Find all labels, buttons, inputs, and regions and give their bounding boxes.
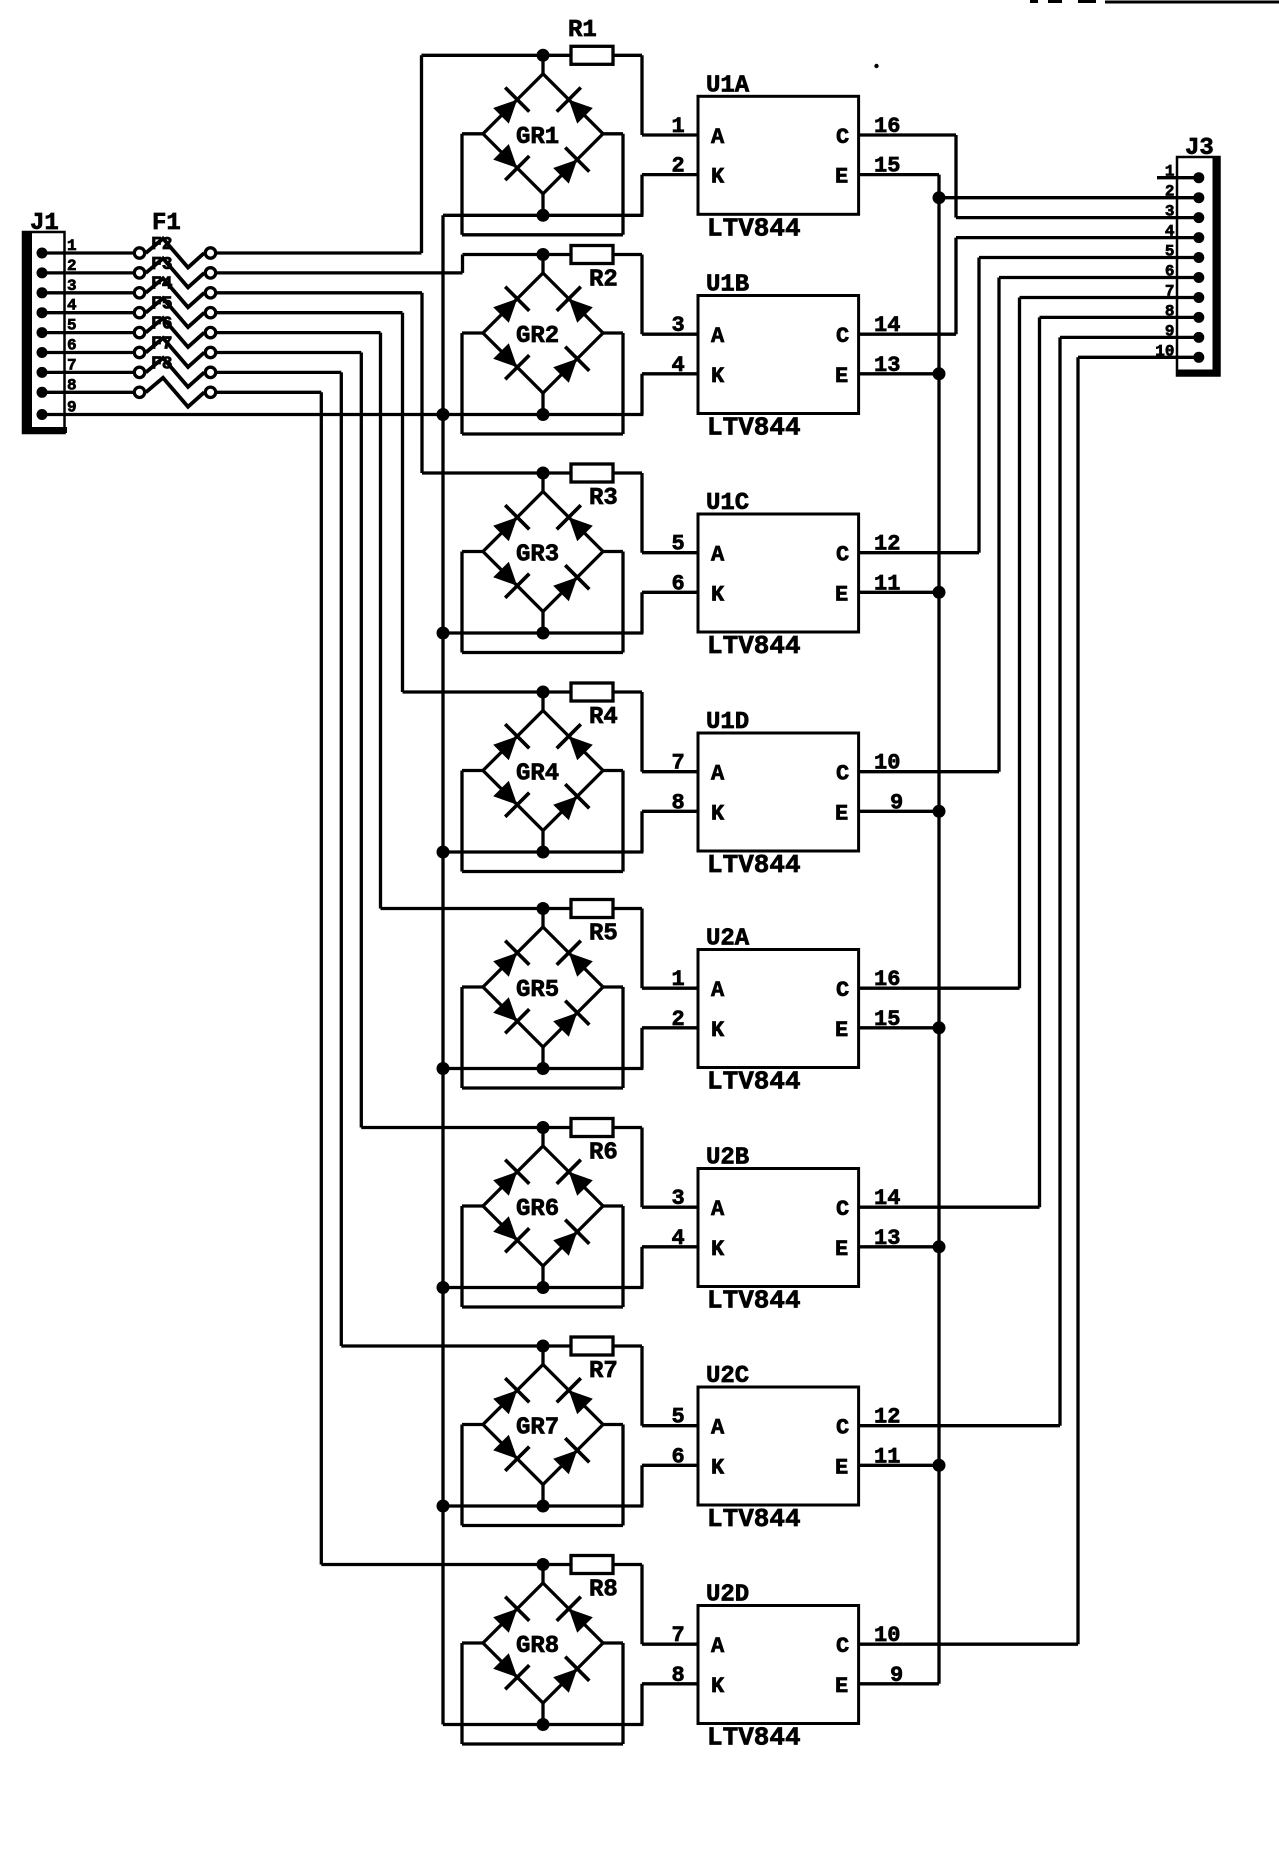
svg-text:3: 3 xyxy=(672,313,685,338)
node GR6 top junction xyxy=(537,1121,550,1134)
connector J1 pin 2 xyxy=(37,267,48,278)
connector J1 pin 1 xyxy=(37,248,48,259)
svg-text:C: C xyxy=(836,324,849,349)
node GR7 top junction xyxy=(537,1340,550,1353)
node emitter bus junction U1B xyxy=(933,367,946,380)
svg-text:LTV844: LTV844 xyxy=(707,1504,801,1534)
wire feed to GR6 top node xyxy=(361,1126,543,1129)
node common bus / GR2 rail junction xyxy=(437,408,450,421)
wire U2D emitter output xyxy=(859,1682,939,1685)
connector J3 pin 3 xyxy=(1193,212,1204,223)
wire vertical feed to GR3 xyxy=(420,293,423,473)
svg-text:10: 10 xyxy=(1155,342,1174,360)
wire feed to GR1 top node xyxy=(422,54,544,57)
bridge rectifier GR5 xyxy=(462,909,623,1089)
optocoupler U1D xyxy=(698,733,859,851)
svg-text:R8: R8 xyxy=(589,1577,618,1604)
wire vertical feed to GR1 xyxy=(420,55,423,253)
svg-text:R7: R7 xyxy=(589,1358,618,1385)
svg-text:GR4: GR4 xyxy=(516,761,559,788)
svg-text:5: 5 xyxy=(672,532,685,557)
fuse F7 xyxy=(134,358,215,387)
resistor R7 xyxy=(543,1337,642,1355)
wire rail to opto cathode pin xyxy=(642,811,698,852)
connector J1 pin 6 xyxy=(37,347,48,358)
wire U1A collector to J3 pin 3 xyxy=(956,135,1199,218)
svg-text:U1D: U1D xyxy=(706,709,749,736)
wire U1B emitter output xyxy=(859,372,939,375)
node emitter bus junction U2A xyxy=(933,1021,946,1034)
svg-text:2: 2 xyxy=(672,1007,685,1032)
node emitter bus junction U2B xyxy=(933,1240,946,1253)
svg-text:1: 1 xyxy=(1165,163,1175,181)
node GR8 bottom junction xyxy=(537,1718,550,1731)
svg-text:8: 8 xyxy=(672,790,685,815)
svg-text:8: 8 xyxy=(1165,302,1175,320)
wire U1C collector output xyxy=(859,551,979,554)
node GR1 bottom junction xyxy=(537,209,550,222)
wire U2B collector output xyxy=(859,1206,1040,1209)
wire rail to opto cathode pin xyxy=(642,374,698,415)
wire U2A collector to J3 pin 7 xyxy=(1020,298,1199,989)
wire fuse F5 output row 5 xyxy=(217,331,381,334)
svg-text:K: K xyxy=(711,1237,725,1262)
wire xyxy=(42,331,134,334)
svg-text:7: 7 xyxy=(672,1623,685,1648)
wire J3 pin 1 stub xyxy=(1157,176,1199,179)
svg-text:A: A xyxy=(711,978,725,1003)
wire U1A collector output xyxy=(859,133,956,136)
wire feed to GR3 top node xyxy=(422,471,543,474)
fuse F3 xyxy=(134,278,215,307)
wire rail to opto cathode pin xyxy=(642,1465,698,1506)
wire U2C collector output xyxy=(859,1424,1060,1427)
svg-text:C: C xyxy=(836,1634,849,1659)
svg-text:1: 1 xyxy=(672,967,685,992)
node GR5 top junction xyxy=(537,902,550,915)
wire GR2 bottom rail xyxy=(443,413,643,416)
node GR4 top junction xyxy=(537,686,550,699)
svg-text:J1: J1 xyxy=(30,210,59,237)
bridge rectifier GR2 xyxy=(462,255,623,435)
wire feed to GR8 top node xyxy=(321,1563,543,1566)
wire J1 pin 9 common xyxy=(42,413,443,416)
svg-text:E: E xyxy=(835,1018,848,1043)
wire vertical feed to GR5 xyxy=(379,333,382,909)
node common bus / GR7 rail junction xyxy=(437,1500,450,1513)
svg-text:F6: F6 xyxy=(151,315,173,335)
node GR1 top junction xyxy=(537,49,550,62)
connector J3 pin 7 xyxy=(1193,292,1204,303)
wire U2D collector to J3 pin 10 xyxy=(1078,357,1199,1644)
svg-text:K: K xyxy=(711,1455,725,1480)
scan artifact line top edge xyxy=(1030,0,1279,3)
wire fuse F4 output row 4 xyxy=(217,311,403,314)
connector J1 pin 3 xyxy=(37,287,48,298)
wire R7 to opto anode xyxy=(642,1346,698,1426)
wire feed to GR7 top node xyxy=(341,1344,543,1347)
svg-text:R6: R6 xyxy=(589,1140,618,1167)
svg-text:F5: F5 xyxy=(151,295,173,315)
wire fuse F1 output row 1 xyxy=(217,251,422,254)
svg-text:U1A: U1A xyxy=(706,72,750,99)
wire U1B collector to J3 pin 4 xyxy=(956,238,1199,335)
bridge rectifier GR8 xyxy=(462,1565,623,1745)
svg-text:U2B: U2B xyxy=(706,1145,749,1172)
optocoupler U1C xyxy=(698,514,859,632)
svg-text:R3: R3 xyxy=(589,485,618,512)
wire rail to opto cathode pin xyxy=(642,1247,698,1288)
connector J1 pin 5 xyxy=(37,327,48,338)
svg-text:E: E xyxy=(835,165,848,190)
bridge rectifier GR1 xyxy=(462,55,623,235)
connector J3 pin 5 xyxy=(1193,252,1204,263)
svg-text:R2: R2 xyxy=(589,267,618,294)
wire J3 pin 2 line xyxy=(939,196,1199,199)
resistor R8 xyxy=(543,1556,642,1574)
wire U1D emitter output xyxy=(859,810,939,813)
wire rail to opto cathode pin xyxy=(642,175,698,216)
resistor R1 xyxy=(543,46,642,64)
svg-text:K: K xyxy=(711,801,725,826)
optocoupler U1A xyxy=(698,96,859,214)
svg-text:F8: F8 xyxy=(151,354,173,374)
svg-text:LTV844: LTV844 xyxy=(707,213,801,243)
svg-text:7: 7 xyxy=(1165,283,1175,301)
optocoupler U2C xyxy=(698,1387,859,1505)
wire xyxy=(42,351,134,354)
svg-text:6: 6 xyxy=(672,1444,685,1469)
bridge rectifier GR7 xyxy=(462,1346,623,1526)
node emitter bus junction U1D xyxy=(933,805,946,818)
svg-text:E: E xyxy=(835,582,848,607)
wire GR7 bottom rail xyxy=(443,1504,643,1507)
svg-text:4: 4 xyxy=(672,1226,685,1251)
resistor R5 xyxy=(543,900,642,918)
node GR3 bottom junction xyxy=(537,627,550,640)
connector J3 pin 4 xyxy=(1193,232,1204,243)
svg-text:LTV844: LTV844 xyxy=(707,1723,801,1753)
scan speck xyxy=(874,64,878,68)
svg-text:F2: F2 xyxy=(151,235,173,255)
resistor R2 xyxy=(543,246,642,264)
resistor R6 xyxy=(543,1119,642,1137)
wire GR4 bottom rail xyxy=(443,850,643,853)
wire U2B emitter output xyxy=(859,1245,939,1248)
svg-text:E: E xyxy=(835,801,848,826)
bridge rectifier GR4 xyxy=(462,692,623,872)
svg-text:1: 1 xyxy=(672,114,685,139)
wire U1A emitter output xyxy=(859,173,939,176)
wire fuse F3 output row 3 xyxy=(217,291,423,294)
node common bus / GR3 rail junction xyxy=(437,627,450,640)
node common bus / GR5 rail junction xyxy=(437,1062,450,1075)
svg-text:GR3: GR3 xyxy=(516,542,559,569)
wire R5 to opto anode xyxy=(642,909,698,989)
svg-text:LTV844: LTV844 xyxy=(707,413,801,443)
node GR6 bottom junction xyxy=(537,1281,550,1294)
svg-text:C: C xyxy=(836,543,849,568)
svg-text:GR5: GR5 xyxy=(516,977,559,1004)
svg-text:7: 7 xyxy=(672,751,685,776)
svg-text:3: 3 xyxy=(1165,203,1175,221)
fuse F2 xyxy=(134,258,215,287)
wire U1C emitter output xyxy=(859,591,939,594)
fuse F4 xyxy=(134,298,215,327)
svg-text:GR2: GR2 xyxy=(516,323,559,350)
node GR2 top junction xyxy=(537,248,550,261)
connector J3 pin 10 xyxy=(1193,352,1204,363)
connector J1 pin 9 xyxy=(37,409,48,420)
svg-text:GR7: GR7 xyxy=(516,1415,559,1442)
node GR2 bottom junction xyxy=(537,408,550,421)
wire vertical feed to GR7 xyxy=(340,372,343,1346)
wire U2C emitter output xyxy=(859,1464,939,1467)
wire U1D collector output xyxy=(859,770,999,773)
svg-text:C: C xyxy=(836,978,849,1003)
wire U2A emitter output xyxy=(859,1026,939,1029)
svg-text:C: C xyxy=(836,125,849,150)
svg-text:6: 6 xyxy=(672,571,685,596)
svg-text:A: A xyxy=(711,125,725,150)
svg-text:GR1: GR1 xyxy=(516,124,559,151)
fuse F6 xyxy=(134,338,215,367)
svg-text:U2D: U2D xyxy=(706,1582,749,1609)
svg-text:F1: F1 xyxy=(152,210,181,237)
wire rail to opto cathode pin xyxy=(642,1028,698,1069)
wire feed to GR2 top node xyxy=(463,253,544,256)
wire vertical feed to GR2 xyxy=(461,255,464,273)
svg-text:R5: R5 xyxy=(589,921,618,948)
svg-text:8: 8 xyxy=(672,1663,685,1688)
svg-text:E: E xyxy=(835,1455,848,1480)
node emitter bus junction U1C xyxy=(933,586,946,599)
wire xyxy=(42,291,134,294)
wire GR3 bottom rail xyxy=(443,631,643,634)
bridge rectifier GR6 xyxy=(462,1128,623,1308)
node GR5 bottom junction xyxy=(537,1062,550,1075)
node GR4 bottom junction xyxy=(537,846,550,859)
wire GR6 bottom rail xyxy=(443,1286,643,1289)
connector J3 pin 2 xyxy=(1193,192,1204,203)
svg-text:5: 5 xyxy=(672,1405,685,1430)
resistor R4 xyxy=(543,683,642,701)
wire U2B collector to J3 pin 8 xyxy=(1040,317,1199,1207)
svg-text:4: 4 xyxy=(672,353,685,378)
svg-text:R1: R1 xyxy=(568,17,597,44)
wire xyxy=(42,371,134,374)
svg-text:LTV844: LTV844 xyxy=(707,631,801,661)
svg-text:9: 9 xyxy=(1165,322,1175,340)
connector J3 xyxy=(1177,157,1220,376)
svg-text:U2C: U2C xyxy=(706,1363,749,1390)
bridge rectifier GR3 xyxy=(462,473,623,653)
svg-text:LTV844: LTV844 xyxy=(707,850,801,880)
wire xyxy=(42,391,134,394)
svg-text:2: 2 xyxy=(1165,183,1175,201)
wire rail to opto cathode pin xyxy=(642,592,698,633)
wire U1C collector to J3 pin 5 xyxy=(979,258,1199,553)
svg-text:C: C xyxy=(836,1197,849,1222)
wire xyxy=(42,311,134,314)
svg-text:F3: F3 xyxy=(151,255,173,275)
svg-text:U1B: U1B xyxy=(706,272,749,299)
wire R3 to opto anode xyxy=(642,473,698,553)
svg-text:A: A xyxy=(711,1197,725,1222)
svg-text:E: E xyxy=(835,1674,848,1699)
fuse F8 xyxy=(134,378,215,407)
optocoupler U2B xyxy=(698,1169,859,1287)
fuse F5 xyxy=(134,318,215,347)
wire U2D collector output xyxy=(859,1643,1078,1646)
svg-text:C: C xyxy=(836,1416,849,1441)
node emitter bus junction U2C xyxy=(933,1459,946,1472)
svg-text:C: C xyxy=(836,762,849,787)
wire common bus vertical xyxy=(441,215,444,1724)
svg-text:GR8: GR8 xyxy=(516,1633,559,1660)
svg-text:LTV844: LTV844 xyxy=(707,1067,801,1097)
wire fuse F8 output row 8 xyxy=(217,391,322,394)
resistor R3 xyxy=(543,464,642,482)
wire xyxy=(42,271,134,274)
svg-text:K: K xyxy=(711,1674,725,1699)
node common bus / GR4 rail junction xyxy=(437,846,450,859)
wire R4 to opto anode xyxy=(642,692,698,772)
svg-text:K: K xyxy=(711,364,725,389)
connector J3 pin 1 xyxy=(1193,172,1204,183)
node GR7 bottom junction xyxy=(537,1500,550,1513)
svg-text:K: K xyxy=(711,1018,725,1043)
svg-text:4: 4 xyxy=(1165,223,1175,241)
svg-text:K: K xyxy=(711,582,725,607)
connector J1 pin 8 xyxy=(37,387,48,398)
svg-text:6: 6 xyxy=(1165,263,1175,281)
wire vertical feed to GR6 xyxy=(360,353,363,1128)
node emitter bus to J3 pin 2 xyxy=(933,191,946,204)
svg-text:3: 3 xyxy=(672,1186,685,1211)
svg-text:LTV844: LTV844 xyxy=(707,1286,801,1316)
svg-text:A: A xyxy=(711,543,725,568)
svg-text:A: A xyxy=(711,324,725,349)
svg-text:GR6: GR6 xyxy=(516,1196,559,1223)
wire GR1 bottom rail xyxy=(443,214,643,217)
wire U2C collector to J3 pin 9 xyxy=(1060,337,1199,1425)
svg-text:J3: J3 xyxy=(1185,135,1214,162)
svg-text:E: E xyxy=(835,364,848,389)
optocoupler U2A xyxy=(698,950,859,1068)
wire R2 to opto anode xyxy=(642,255,698,335)
svg-text:U2A: U2A xyxy=(706,926,750,953)
node GR3 top junction xyxy=(537,467,550,480)
svg-text:R4: R4 xyxy=(589,704,618,731)
svg-text:A: A xyxy=(711,1634,725,1659)
wire feed to GR5 top node xyxy=(381,907,544,910)
svg-text:2: 2 xyxy=(672,154,685,179)
wire xyxy=(42,251,134,254)
svg-text:F4: F4 xyxy=(151,275,173,295)
wire R1 to opto anode xyxy=(642,55,698,135)
svg-text:E: E xyxy=(835,1237,848,1262)
fuse F1 xyxy=(134,239,215,268)
optocoupler U1B xyxy=(698,296,859,414)
svg-text:U1C: U1C xyxy=(706,490,749,517)
wire emitter bus vertical xyxy=(937,175,940,1684)
wire U1D collector to J3 pin 6 xyxy=(999,278,1199,772)
wire U1B collector output xyxy=(859,333,956,336)
wire fuse F7 output row 7 xyxy=(217,371,342,374)
connector J1 pin 7 xyxy=(37,367,48,378)
wire GR8 bottom rail xyxy=(443,1723,643,1726)
node GR8 top junction xyxy=(537,1558,550,1571)
wire R6 to opto anode xyxy=(642,1128,698,1208)
svg-text:5: 5 xyxy=(1165,243,1175,261)
wire U2A collector output xyxy=(859,987,1020,990)
svg-text:F7: F7 xyxy=(151,334,173,354)
wire feed to GR4 top node xyxy=(403,690,544,693)
connector J3 pin 8 xyxy=(1193,312,1204,323)
node common bus / GR6 rail junction xyxy=(437,1281,450,1294)
optocoupler U2D xyxy=(698,1606,859,1724)
connector J1 xyxy=(23,232,67,433)
wire vertical feed to GR4 xyxy=(401,313,404,692)
connector J1 pin 4 xyxy=(37,307,48,318)
connector J3 pin 6 xyxy=(1193,272,1204,283)
svg-text:K: K xyxy=(711,165,725,190)
wire R8 to opto anode xyxy=(642,1565,698,1645)
wire rail to opto cathode pin xyxy=(642,1684,698,1725)
wire GR5 bottom rail xyxy=(443,1067,643,1070)
wire fuse F6 output row 6 xyxy=(217,351,362,354)
svg-text:A: A xyxy=(711,1416,725,1441)
svg-text:A: A xyxy=(711,762,725,787)
connector J3 pin 9 xyxy=(1193,332,1204,343)
wire vertical feed to GR8 xyxy=(320,392,323,1564)
wire fuse F2 output row 2 xyxy=(217,271,463,274)
